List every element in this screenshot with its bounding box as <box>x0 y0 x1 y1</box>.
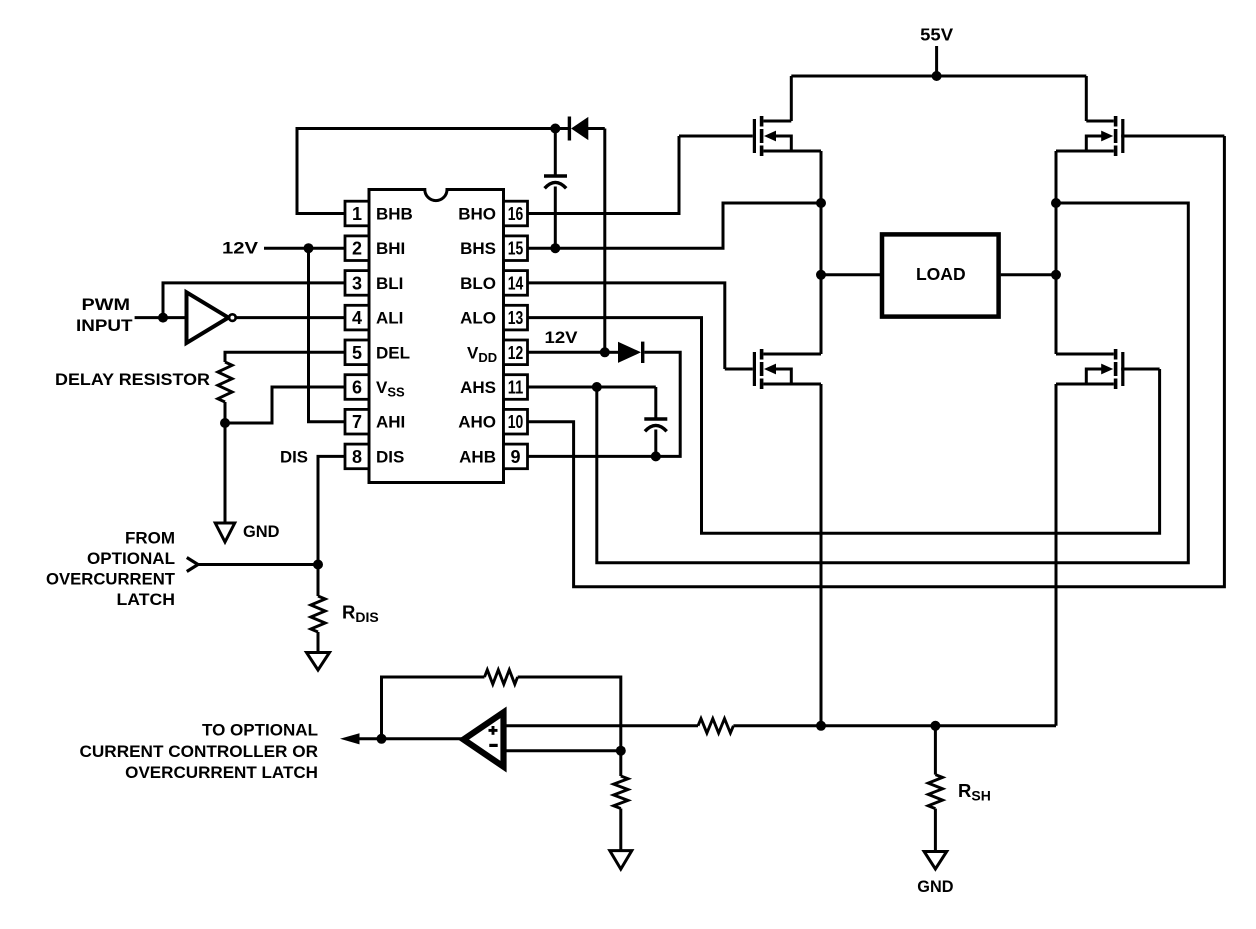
svg-text:ALI: ALI <box>376 309 403 328</box>
label RSH <box>958 780 991 804</box>
wire RDIS to ground <box>317 632 320 653</box>
wire latch to DIS junction <box>198 563 318 566</box>
svg-text:AHB: AHB <box>459 447 496 466</box>
wire 12V to BHI pin 2 <box>264 247 345 250</box>
pin 14 box <box>504 271 528 296</box>
wire delay resistor to junction <box>224 402 227 423</box>
svg-text:8: 8 <box>352 447 362 467</box>
resistor feedback <box>485 670 518 684</box>
wire AHO pin 10 to Q2 gate <box>528 136 1225 587</box>
pin 1 label BHB <box>376 205 413 224</box>
pin 12 label VDD <box>467 343 497 365</box>
svg-text:55V: 55V <box>920 25 953 45</box>
svg-text:AHS: AHS <box>460 378 496 397</box>
pin 6 box <box>345 375 369 400</box>
node 55V rail <box>932 71 942 81</box>
wire Q4 source down <box>1055 384 1058 726</box>
wire 12V to AHI pin 7 <box>309 248 346 422</box>
wire LOAD left <box>821 273 882 276</box>
transistor Q1 top-left NFET <box>679 116 821 156</box>
svg-text:DEL: DEL <box>376 343 410 362</box>
wire AHS pin 11 <box>528 386 656 389</box>
svg-text:12V: 12V <box>222 239 259 258</box>
pin 10 label AHO <box>458 413 496 432</box>
wire BHO pin 16 to Q1 gate <box>528 136 680 214</box>
label 12V supply <box>222 239 259 258</box>
label GND <box>243 522 280 541</box>
svg-text:TO OPTIONAL: TO OPTIONAL <box>202 721 318 740</box>
diode DA bootstrap <box>605 342 645 363</box>
node LOAD right <box>1051 270 1061 280</box>
pin 9 box <box>504 444 528 469</box>
wire op-amp plus input <box>506 724 698 727</box>
wire DIS pin 8 down <box>318 456 345 596</box>
svg-text:GND: GND <box>243 522 280 541</box>
svg-text:BHS: BHS <box>460 239 496 258</box>
wire minus resistor top <box>619 751 622 776</box>
pin 14 label BLO <box>460 274 496 293</box>
svg-text:AHI: AHI <box>376 413 405 432</box>
label LOAD <box>916 264 966 284</box>
svg-text:BHB: BHB <box>376 205 413 224</box>
svg-text:ALO: ALO <box>460 309 496 328</box>
svg-text:12: 12 <box>508 343 524 363</box>
label PWM INPUT <box>76 295 133 335</box>
svg-text:DIS: DIS <box>280 448 308 467</box>
svg-text:11: 11 <box>508 378 524 398</box>
pin 5 box <box>345 340 369 365</box>
pin 13 box <box>504 305 528 330</box>
resistor series plus <box>698 719 733 733</box>
svg-text:BHI: BHI <box>376 239 405 258</box>
label GND bottom <box>917 877 953 896</box>
wire VDD pin 12 to 12V node <box>528 351 605 354</box>
pin 11 label AHS <box>460 378 496 397</box>
wire AHS route to bridge node <box>597 203 1189 563</box>
node diode DB cathode junction <box>550 124 560 134</box>
label FROM OPTIONAL OVERCURRENT LATCH <box>46 529 176 609</box>
transistor Q4 bottom-right NFET <box>1056 349 1160 389</box>
wire Q2 drain <box>1085 76 1088 121</box>
wire diode DA to AHB pin 9 <box>528 352 681 456</box>
pin 13 label ALO <box>460 309 496 328</box>
wire BHB pin 1 loop <box>297 129 568 214</box>
node DEL/VSS junction <box>220 418 230 428</box>
resistor RSH <box>928 775 942 809</box>
wire 55V rail <box>791 75 1086 78</box>
wire op-amp output <box>355 737 462 740</box>
svg-text:OVERCURRENT LATCH: OVERCURRENT LATCH <box>125 763 318 782</box>
delay resistor <box>218 362 232 402</box>
transistor Q2 top-right NFET <box>1056 116 1224 156</box>
svg-text:14: 14 <box>508 273 524 293</box>
ground RDIS <box>307 653 330 671</box>
label DELAY RESISTOR <box>55 370 210 389</box>
pin 16 box <box>504 201 528 226</box>
ground delay GND <box>215 523 235 542</box>
pin 3 box <box>345 271 369 296</box>
svg-text:CURRENT CONTROLLER OR: CURRENT CONTROLLER OR <box>80 742 319 761</box>
pin 5 label DEL <box>376 343 410 362</box>
pin 2 label BHI <box>376 239 405 258</box>
wire Q1 drain <box>790 76 793 121</box>
label DIS <box>280 448 308 467</box>
pin 12 box <box>504 340 528 365</box>
svg-text:4: 4 <box>352 308 362 328</box>
svg-text:2: 2 <box>352 239 362 259</box>
pin 15 box <box>504 236 528 261</box>
IC U1 HIP4081A body with notch <box>369 190 504 483</box>
svg-text:PWM: PWM <box>82 295 131 314</box>
resistor minus to ground <box>614 776 628 809</box>
svg-text:1: 1 <box>352 204 362 224</box>
svg-text:DELAY RESISTOR: DELAY RESISTOR <box>55 370 210 389</box>
wire BHS pin 15 to bridge node <box>528 203 822 248</box>
pin 3 label BLI <box>376 274 403 293</box>
wire Q3 source down <box>820 384 823 726</box>
pin 1 box <box>345 201 369 226</box>
pin 8 label DIS <box>376 447 404 466</box>
node PWM junction <box>158 313 168 323</box>
ground RSH GND <box>924 852 947 870</box>
svg-text:RDIS: RDIS <box>342 602 379 626</box>
svg-text:DIS: DIS <box>376 447 404 466</box>
arrow to current controller <box>340 733 360 744</box>
pin 8 box <box>345 444 369 469</box>
wire shunt bus <box>733 724 1056 727</box>
wire PWM input <box>135 316 186 319</box>
load box <box>882 234 999 316</box>
pin 4 label ALI <box>376 309 403 328</box>
node 12V junction <box>304 243 314 253</box>
svg-text:OVERCURRENT: OVERCURRENT <box>46 570 176 589</box>
pin 6 label VSS <box>376 378 405 400</box>
svg-text:LOAD: LOAD <box>916 264 966 284</box>
wire junction to GND <box>224 423 227 523</box>
pin 15 label BHS <box>460 239 496 258</box>
pin 7 label AHI <box>376 413 405 432</box>
wire ALO pin 13 to Q4 gate <box>528 318 1160 534</box>
svg-text:10: 10 <box>508 412 524 432</box>
wire feedback to minus <box>518 677 621 751</box>
svg-text:AHO: AHO <box>458 413 496 432</box>
wire feedback loop <box>382 677 485 739</box>
svg-text:13: 13 <box>508 308 524 328</box>
node CB to BHS <box>550 243 560 253</box>
pin 10 box <box>504 409 528 434</box>
svg-text:3: 3 <box>352 273 362 293</box>
svg-text:12V: 12V <box>545 328 579 347</box>
svg-text:BHO: BHO <box>458 205 496 224</box>
op-amp U3 <box>464 712 504 766</box>
wire PWM to BLI pin 3 <box>163 283 345 318</box>
wire inverter to ALI pin 4 <box>236 316 345 319</box>
svg-text:9: 9 <box>510 447 520 467</box>
node DIS junction <box>313 560 323 570</box>
svg-text:5: 5 <box>352 343 362 363</box>
diode DB bootstrap <box>568 117 605 141</box>
node LOAD left <box>816 270 826 280</box>
svg-text:LATCH: LATCH <box>117 590 176 609</box>
arrow from optional latch <box>187 558 198 572</box>
svg-text:16: 16 <box>508 204 524 224</box>
capacitor CA bootstrap <box>644 387 667 456</box>
svg-text:OPTIONAL: OPTIONAL <box>87 549 175 568</box>
svg-text:6: 6 <box>352 378 362 398</box>
wire minus resistor to ground <box>619 809 622 851</box>
node AHB cap junction <box>651 451 661 461</box>
pin 4 box <box>345 305 369 330</box>
svg-text:BLO: BLO <box>460 274 496 293</box>
inverter U2 <box>187 292 236 343</box>
node VDD 12V junction <box>600 347 610 357</box>
node Q3 source bus <box>816 721 826 731</box>
pin 11 box <box>504 375 528 400</box>
wire LOAD right <box>1001 273 1056 276</box>
node AHS junction <box>592 382 602 392</box>
pin 9 label AHB <box>459 447 496 466</box>
node BHS bridge <box>816 198 826 208</box>
svg-text:BLI: BLI <box>376 274 403 293</box>
wire BLO pin 14 to Q3 gate <box>528 283 725 369</box>
label TO OPTIONAL CURRENT CONTROLLER OR OVERCURRENT LATCH <box>80 721 319 782</box>
wire RSH top <box>934 726 937 775</box>
transistor Q3 bottom-left NFET <box>725 349 821 389</box>
pin 2 box <box>345 236 369 261</box>
svg-text:GND: GND <box>917 877 953 896</box>
svg-text:7: 7 <box>352 412 362 432</box>
svg-text:RSH: RSH <box>958 780 991 804</box>
svg-text:INPUT: INPUT <box>76 316 133 335</box>
svg-text:FROM: FROM <box>125 529 175 548</box>
wire right bridge node vertical <box>1055 151 1058 354</box>
node minus junction <box>616 746 626 756</box>
wire left bridge node vertical <box>820 151 823 354</box>
wire DEL pin 5 to delay resistor <box>225 352 345 362</box>
label 55V <box>920 25 953 45</box>
node AHS bridge <box>1051 198 1061 208</box>
svg-text:15: 15 <box>508 239 524 259</box>
wire 12V vertical to VDD <box>603 129 606 353</box>
node output junction <box>377 734 387 744</box>
label RDIS <box>342 602 379 626</box>
wire junction to VSS pin 6 <box>225 387 345 423</box>
wire 55V stub <box>935 46 938 76</box>
node RSH bus <box>930 721 940 731</box>
pin 16 label BHO <box>458 205 496 224</box>
pin 7 box <box>345 409 369 434</box>
label 12V at VDD <box>545 328 579 347</box>
wire RSH to ground <box>934 809 937 852</box>
wire op-amp minus input <box>506 749 621 752</box>
ground op-amp GND <box>610 851 632 870</box>
resistor RDIS <box>311 596 325 632</box>
capacitor CB bootstrap <box>544 129 567 249</box>
